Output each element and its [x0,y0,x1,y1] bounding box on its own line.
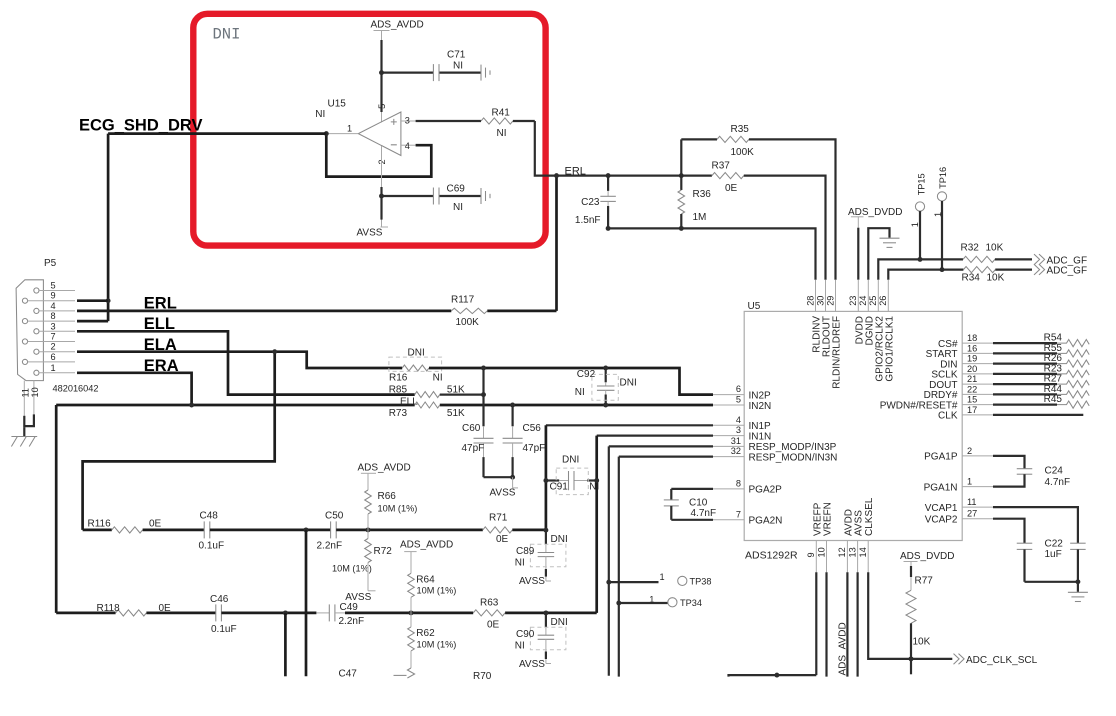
wire GPIO2 pin 25 row [878,259,963,279]
svg-text:4: 4 [405,141,410,151]
svg-text:0E: 0E [725,183,738,194]
svg-text:DNI: DNI [213,26,241,44]
svg-text:TP15: TP15 [916,173,926,195]
svg-text:C46: C46 [210,594,229,605]
svg-text:2: 2 [967,446,972,456]
svg-text:23: 23 [848,296,858,306]
svg-text:C92: C92 [577,369,596,380]
svg-text:U5: U5 [748,301,761,312]
svg-text:R85: R85 [389,384,408,395]
wire P5 pin9 stub [77,299,108,302]
wire ELL from P5 pin 3 [77,331,415,394]
svg-text:VREFN: VREFN [823,502,834,536]
svg-text:ADC_CLK_SCL: ADC_CLK_SCL [966,655,1038,666]
wire RLD bottom rail to pin 28 [608,228,815,279]
svg-text:ELL: ELL [400,396,418,407]
U5 bottom pin 9 VREFP [815,541,817,573]
svg-text:AVSS: AVSS [357,228,383,239]
resistor R35 100K [681,138,717,140]
svg-text:11: 11 [21,388,31,398]
svg-text:2.2nF: 2.2nF [339,616,365,627]
svg-text:R70: R70 [473,671,492,682]
capacitor C92 (DNI) [605,368,607,382]
net port ADC_CLK_SCL [954,654,965,665]
U5 top pin 25 GPIO2/RCLK2 [877,280,879,312]
wire ERA branch down to R118 chain [55,405,58,613]
svg-text:R32: R32 [961,242,980,253]
wire RESP_MODN riser [618,457,620,677]
svg-text:C24: C24 [1045,465,1064,476]
svg-text:CLK: CLK [938,411,958,422]
ground (DGND) [880,237,900,239]
U5 pin 27 VCAP2 [962,518,993,520]
svg-text:1uF: 1uF [1045,549,1062,560]
svg-text:AVSS: AVSS [519,659,545,670]
svg-text:1: 1 [967,477,972,487]
resistor R70 (cut off at page edge) [407,668,414,678]
DNI highlight box (red rounded rectangle) [193,14,545,246]
svg-text:NI: NI [453,61,463,72]
wire R37 to pin 30 [744,176,826,280]
wire GPIO1 pin 26 row [888,270,963,280]
wire ELA branch to R116 chain [83,352,275,530]
svg-text:R77: R77 [915,575,934,586]
svg-text:26: 26 [878,296,888,306]
wire ERL node row [557,175,712,177]
U5 pin 22 DRDY# [962,393,993,395]
svg-text:5: 5 [377,104,387,109]
U5 bottom pin 10 VREFN [826,541,828,573]
svg-text:R72: R72 [374,546,393,557]
wire RESP_MODP riser [608,446,610,675]
wire VREFN [825,572,827,676]
svg-text:C56: C56 [523,423,542,434]
svg-text:PGA2N: PGA2N [749,516,783,527]
svg-text:R64: R64 [416,574,435,585]
wire R35 to pin 29 [749,139,836,279]
P5 pin 6 [22,359,27,364]
wire DGND pin 24 to ground [868,228,889,280]
resistor R85 51K [415,392,440,398]
P5 pin 2 [34,349,39,354]
wire ELA from P5 pin 2 [77,352,402,368]
wire ERL to R35 row [680,139,682,175]
svg-text:16: 16 [967,343,977,353]
svg-text:R45: R45 [1044,394,1063,405]
U5 pin 20 SCLK [962,373,993,375]
svg-text:NI: NI [515,558,525,569]
svg-text:4.7nF: 4.7nF [691,508,717,519]
resistor R64 10M [408,573,415,597]
svg-text:P5: P5 [44,258,57,269]
net port ADC_GPIO2 [1034,254,1045,265]
svg-text:1: 1 [51,363,56,373]
svg-text:47pF: 47pF [523,443,546,454]
svg-text:PGA1N: PGA1N [924,482,958,493]
capacitor C48 0.1uF [203,521,205,538]
resistor R62 10M [410,613,412,627]
svg-text:AVSS: AVSS [490,487,516,498]
capacitor C56 47pF [511,405,513,426]
svg-text:0E: 0E [487,620,500,631]
resistor R118 0E [56,612,115,615]
svg-text:AVSS: AVSS [854,510,865,536]
svg-text:482016042: 482016042 [53,383,99,393]
wire IN1P row [546,424,713,426]
svg-text:7: 7 [736,509,741,519]
svg-text:R36: R36 [693,189,712,200]
svg-text:51K: 51K [447,408,465,419]
P5 pin 8 [22,319,27,324]
svg-text:DNI: DNI [408,348,425,359]
resistor R71 0E [483,527,513,533]
svg-text:ADS_DVDD: ADS_DVDD [900,551,954,562]
wire RESP_MODN row [619,456,713,458]
svg-text:10K: 10K [986,242,1004,253]
wire R41 output to ERL node [535,121,557,176]
svg-text:R71: R71 [489,512,508,523]
svg-text:TP38: TP38 [690,576,712,586]
svg-text:C90: C90 [516,629,535,640]
resistor R73 51K [415,402,440,408]
wire IN1N riser [595,436,598,613]
svg-text:25: 25 [868,296,878,306]
ground (C71) [480,65,482,81]
wire RESP_MODP row [609,445,713,447]
wire C60/C56 common to AVSS [484,476,513,478]
svg-text:10M (1%): 10M (1%) [332,564,372,574]
U5 pin 11 VCAP1 [962,506,993,508]
U5 pin 16 START [962,352,993,354]
svg-text:8: 8 [736,478,741,488]
wire ECG_SHD_DRV [108,132,326,135]
U5 top pin 29 RLDIN/RLDREF [835,280,837,312]
svg-text:6: 6 [736,384,741,394]
wire CLKSEL to ADC_CLK_SCL [868,572,952,659]
capacitor C46 0.1uF [215,604,217,621]
U5 top pin 30 RLDOUT [825,280,827,312]
wire AVSS rail (U15) [381,146,383,227]
svg-text:R16: R16 [389,373,408,384]
svg-text:10M (1%): 10M (1%) [378,504,418,514]
svg-text:6: 6 [51,352,56,362]
svg-text:1.5nF: 1.5nF [575,215,601,226]
capacitor C50 2.2nF [330,521,332,538]
wire ADS_AVDD rail bold segment [380,40,382,112]
capacitor C10 4.7nF [671,488,713,490]
resistor R26 [993,363,1057,365]
wire C46 junction down [284,613,287,676]
svg-text:4: 4 [51,301,56,311]
U5 pin 1 PGA1N [962,486,993,488]
svg-text:10: 10 [30,387,40,397]
svg-text:0.1uF: 0.1uF [211,624,237,635]
svg-text:ADS_AVDD: ADS_AVDD [400,539,453,550]
U5 pin 31 RESP_MODP/IN3P [713,445,744,447]
svg-text:8: 8 [51,311,56,321]
svg-text:14: 14 [858,547,868,557]
wire ERA from P5 pin 1 [77,373,192,405]
svg-text:22: 22 [967,384,977,394]
U5 pin 2 PGA1P [962,455,993,457]
svg-text:3: 3 [405,116,410,126]
net port ADC_GPIO1 [1034,264,1045,275]
svg-text:2: 2 [377,159,387,164]
svg-text:9: 9 [806,552,816,557]
capacitor C90 (DNI) [545,613,547,627]
svg-text:VCAP1: VCAP1 [925,503,958,514]
svg-text:100K: 100K [731,147,755,158]
resistor R34 10K [963,267,995,273]
svg-text:0E: 0E [496,534,509,545]
svg-text:DNI: DNI [620,377,637,388]
capacitor C71 [382,71,434,73]
P5 pin 5 [34,288,39,293]
capacitor C49 2.2nF [316,612,329,614]
svg-text:1: 1 [649,595,654,605]
U5 bottom pin 12 AVDD [846,541,848,573]
ground (C69) [480,188,482,204]
wire CLK pin 17 [993,414,1083,416]
svg-text:R63: R63 [480,598,499,609]
svg-text:ECG_SHD_DRV: ECG_SHD_DRV [79,117,202,135]
wire AVSS pin 13 [856,572,858,676]
svg-text:DNI: DNI [551,617,568,628]
svg-text:5: 5 [736,395,741,405]
resistor R41 [416,120,481,122]
svg-text:11: 11 [967,497,977,507]
svg-text:C48: C48 [200,510,219,521]
wire R16 output to IN2P [429,368,713,395]
svg-text:10: 10 [816,547,826,557]
U5 pin 4 IN1P [713,424,744,426]
resistor R45 [993,404,1057,406]
svg-text:R41: R41 [492,108,511,119]
resistor R66 10M [365,490,372,514]
power AVSS (R72) [368,590,376,592]
ground (VCAP) [1068,591,1088,593]
svg-text:IN2N: IN2N [749,401,772,412]
pin 1 (U15 output) [326,133,358,135]
P5 pin 4 [34,308,39,313]
svg-text:NI: NI [315,109,325,120]
wire ECG_SHD_DRV to P5 pins 9/8 [107,134,110,322]
svg-text:28: 28 [805,296,815,306]
U5 pin 6 IN2P [713,394,744,396]
svg-text:3: 3 [736,425,741,435]
svg-text:DNI: DNI [562,455,579,466]
svg-text:2: 2 [51,342,56,352]
svg-text:R117: R117 [451,295,475,306]
P5 pins 11/10 [23,381,25,428]
svg-text:C91: C91 [550,481,569,492]
wire VCAP common rail [1025,581,1078,583]
svg-text:0.1uF: 0.1uF [199,540,225,551]
resistor R117 [451,308,487,313]
svg-text:3: 3 [51,321,56,331]
capacitor C22 1uF (VCAP2 leg) [993,519,1025,544]
svg-text:17: 17 [967,405,977,415]
wire IN1N row [597,435,713,437]
U5 pin 5 IN2N [713,404,744,406]
wire ERA row to IN2N [56,404,415,407]
resistor R55 [993,352,1057,354]
svg-text:R62: R62 [416,628,435,639]
capacitor C91 (DNI) [546,479,559,481]
U5 pin 32 RESP_MODN/IN3N [713,456,744,458]
svg-text:7: 7 [51,332,56,342]
wire IN1P riser [545,425,548,530]
wire U15 feedback loop [326,134,431,177]
svg-text:32: 32 [731,446,741,456]
svg-text:RLDIN/RLDREF: RLDIN/RLDREF [832,316,843,389]
svg-text:10K: 10K [913,636,931,647]
pin 4 (- input) [401,144,416,146]
U5 pin 21 DOUT [962,383,993,385]
svg-text:VCAP2: VCAP2 [925,515,958,526]
resistor R77 10K [906,590,916,623]
svg-text:C69: C69 [447,184,466,195]
svg-text:IN2P: IN2P [749,390,772,401]
svg-text:NI: NI [433,373,443,384]
resistor R116 0E [83,529,112,532]
svg-text:100K: 100K [456,317,480,328]
U5 bottom pin 14 CLKSEL [867,541,869,573]
svg-text:18: 18 [967,333,977,343]
resistor R23 [993,373,1057,375]
svg-text:NI: NI [589,481,599,492]
svg-text:10M (1%): 10M (1%) [417,640,457,650]
svg-text:ADS_AVDD: ADS_AVDD [371,20,424,31]
svg-text:NI: NI [515,640,525,651]
U5 top pin 23 DVDD [857,280,859,312]
svg-text:12: 12 [837,547,847,557]
svg-text:47pF: 47pF [462,443,485,454]
svg-text:5: 5 [51,281,56,291]
wire VREFP rail [729,675,817,677]
svg-text:10K: 10K [987,273,1005,284]
svg-text:21: 21 [967,374,977,384]
resistor R63 0E [473,610,505,616]
svg-text:IN1N: IN1N [749,431,772,442]
svg-text:R34: R34 [962,273,981,284]
chassis ground (P5) [11,436,37,438]
wire R117 to ERL node [555,176,558,311]
svg-text:C23: C23 [581,197,600,208]
svg-text:NI: NI [453,202,463,213]
svg-text:PGA2P: PGA2P [749,485,783,496]
svg-text:ADS1292R: ADS1292R [745,550,798,562]
svg-text:AVSS: AVSS [519,576,545,587]
capacitor C89 (DNI) [545,530,547,544]
capacitor C23 1.5nF [607,176,609,191]
wire P5 pin8 stub [77,320,108,323]
resistor R37 0E [712,173,744,179]
svg-text:TP34: TP34 [680,598,702,608]
svg-text:R118: R118 [97,603,121,614]
U5 pin 3 IN1N [713,435,744,437]
capacitor C60 47pF [482,368,484,426]
resistor R27 [993,383,1057,385]
svg-text:R73: R73 [389,408,408,419]
svg-text:24: 24 [858,296,868,306]
wire ERL from P5 pin 4 [77,310,451,313]
svg-text:10M (1%): 10M (1%) [417,586,457,596]
svg-text:15: 15 [967,395,977,405]
resistor R54 [993,342,1057,344]
svg-text:ADS_DVDD: ADS_DVDD [848,207,902,218]
test point TP34 [619,602,668,604]
svg-text:R37: R37 [712,160,731,171]
resistor R44 [993,393,1057,395]
capacitor (VCAP1 leg) [993,507,1078,543]
svg-text:30: 30 [815,296,825,306]
svg-text:TP16: TP16 [938,167,948,189]
svg-text:1: 1 [910,222,920,227]
svg-text:C22: C22 [1045,538,1064,549]
svg-text:C49: C49 [340,602,359,613]
svg-text:R116: R116 [88,518,112,529]
pin 3 (+ input) [401,120,416,122]
test point TP38 [609,581,659,583]
svg-text:1M: 1M [693,212,707,223]
svg-text:U15: U15 [328,99,347,110]
svg-text:C47: C47 [339,668,358,679]
svg-text:4.7nF: 4.7nF [1045,477,1071,488]
U5 pin 8 PGA2P [713,488,744,490]
svg-text:1: 1 [660,572,665,582]
P5 pin 1 [34,370,39,375]
svg-text:C71: C71 [447,50,466,61]
svg-text:2.2nF: 2.2nF [317,540,343,551]
svg-text:C60: C60 [462,423,481,434]
svg-text:1: 1 [347,124,352,134]
svg-text:DNI: DNI [551,534,568,545]
capacitor C69 [382,195,434,197]
svg-text:C50: C50 [325,510,344,521]
resistor R72 10M [367,530,369,539]
svg-text:29: 29 [825,296,835,306]
svg-text:CLKSEL: CLKSEL [864,497,875,536]
svg-text:PGA1P: PGA1P [924,452,958,463]
wire VREFP [815,572,817,675]
resistor R36 1M [680,176,682,190]
svg-text:ADS_AVDD: ADS_AVDD [358,463,411,474]
svg-text:31: 31 [731,436,741,446]
P5 pin 7 [22,339,27,344]
P5 pin 3 [34,329,39,334]
resistor R16 (DNI) [402,365,429,371]
svg-text:C89: C89 [516,546,535,557]
svg-text:R66: R66 [378,491,397,502]
svg-text:ADS_AVDD: ADS_AVDD [837,622,848,675]
resistor R32 10K [963,256,995,262]
svg-text:27: 27 [967,509,977,519]
svg-text:19: 19 [967,354,977,364]
U5 top pin 24 DGND [867,280,869,312]
U5 pin 7 PGA2N [713,519,744,521]
U5 pin 15 PWDN#/RESET# [962,404,993,406]
U5 pin 19 DIN [962,363,993,365]
svg-text:9: 9 [51,291,56,301]
svg-text:20: 20 [967,364,977,374]
U5 bottom pin 13 AVSS [857,541,859,573]
U5 pin 17 CLK [962,414,993,416]
svg-text:13: 13 [847,547,857,557]
svg-text:ADC_GF: ADC_GF [1047,266,1088,277]
wire R85 output [440,394,484,396]
U5 top pin 28 RLDINV [815,280,817,312]
